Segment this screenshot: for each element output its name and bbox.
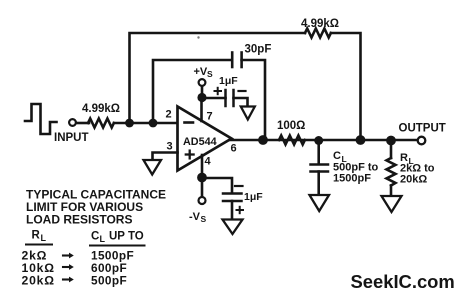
svg-text:-V: -V [189, 211, 201, 223]
node pin6 junction [258, 135, 268, 145]
svg-text:3: 3 [167, 141, 173, 153]
node CL junction [314, 136, 323, 145]
table title line 1 [26, 188, 166, 202]
node +Vs junction dot [197, 93, 206, 102]
op-amp U1 triangle [178, 107, 232, 171]
label 100 ohm [277, 120, 305, 132]
svg-text:100Ω: 100Ω [277, 120, 305, 132]
wire feedback loop (right side down to output rail) [331, 33, 361, 140]
table title line 3 [26, 213, 132, 227]
label 4.99kOhm (feedback) [301, 18, 339, 30]
table row 3 [22, 274, 128, 288]
wire outer feedback loop (left+top) [130, 33, 306, 123]
wire pin3 to ground [153, 153, 178, 161]
table arrow row 2 [63, 264, 74, 270]
svg-text:2: 2 [166, 109, 172, 121]
capacitor C1 30pF plates [232, 53, 241, 68]
svg-text:SeekIC.com: SeekIC.com [351, 271, 455, 292]
op-amp plus sign [186, 151, 194, 159]
svg-text:OUTPUT: OUTPUT [399, 123, 446, 135]
ground (-Vs bypass) [223, 220, 243, 235]
+Vs terminal [199, 79, 206, 86]
C3 plus sign [237, 207, 244, 213]
C2 minus sign [239, 90, 246, 92]
capacitor CL plates [311, 165, 329, 172]
table arrow row 3 [63, 277, 74, 283]
svg-text:UP TO: UP TO [109, 231, 144, 243]
label 1uF (bottom) [244, 191, 263, 203]
ground (RL) [382, 196, 402, 212]
table title line 2 [26, 200, 143, 214]
svg-text:6: 6 [231, 143, 237, 155]
svg-text:AD544: AD544 [183, 136, 217, 148]
resistor R1 4.99k (input) [88, 119, 114, 128]
label 1uF (top) [219, 75, 238, 87]
label 30pF [245, 44, 272, 56]
label +Vs [194, 66, 214, 79]
C3 minus sign [235, 185, 243, 187]
svg-text:+V: +V [194, 66, 208, 78]
label OUTPUT [399, 123, 446, 135]
ground (non-inverting input) [144, 160, 162, 175]
ground (CL) [310, 195, 330, 211]
svg-text:L: L [100, 234, 106, 244]
svg-text:R: R [32, 230, 41, 242]
resistor R2 4.99k (feedback) [305, 29, 331, 38]
table header RL underline [26, 244, 52, 246]
node junction A (feedback tap) [125, 119, 134, 128]
svg-text:4: 4 [205, 156, 212, 168]
wire output rail [230, 139, 418, 142]
label CL value [333, 150, 379, 185]
wire CL to ground [317, 172, 320, 196]
svg-text:500pF: 500pF [91, 274, 127, 288]
svg-text:1500pF: 1500pF [333, 173, 371, 185]
watermark SeekIC.com [351, 271, 455, 292]
svg-text:INPUT: INPUT [54, 132, 89, 144]
pin label 4 [205, 156, 212, 168]
table row 1 [22, 249, 135, 263]
node -Vs junction dot [197, 173, 207, 183]
node feedback junction [356, 135, 366, 145]
table header RL [32, 230, 47, 244]
wire input terminal to R1 [76, 122, 89, 125]
node RL junction [386, 136, 396, 146]
wire RL to ground [390, 186, 393, 197]
resistor RL (vertical) [387, 158, 396, 186]
table arrow row 1 [63, 253, 74, 259]
wire +Vs dot to C2 [202, 97, 226, 100]
label AD544 [183, 136, 217, 148]
svg-text:20kΩ: 20kΩ [22, 274, 55, 288]
svg-text:4.99kΩ: 4.99kΩ [301, 18, 339, 30]
wire RL junction down [390, 140, 393, 158]
label 4.99kOhm (input) [82, 103, 120, 115]
node junction B (30pF tap) [149, 119, 158, 128]
wire pin7 to +Vs node [200, 98, 203, 122]
table row 2 [22, 261, 128, 275]
wire 30pF loop (left+top) [153, 60, 232, 123]
wire -Vs dot to terminal [201, 182, 204, 197]
wire +Vs dot to terminal [201, 86, 204, 94]
ground (top bypass) [241, 107, 255, 120]
scan speck [197, 36, 199, 38]
wire 30pF to output rail [242, 60, 265, 140]
svg-text:C: C [333, 150, 341, 162]
wire -Vs dot to C3 [202, 178, 232, 193]
wire CL junction down [317, 140, 320, 164]
svg-text:S: S [207, 69, 213, 79]
input terminal [69, 119, 76, 126]
svg-text:S: S [201, 214, 207, 224]
-Vs terminal [199, 197, 206, 204]
op-amp minus sign [185, 121, 194, 124]
pin label 3 [167, 141, 173, 153]
svg-text:4.99kΩ: 4.99kΩ [82, 103, 120, 115]
label -Vs [189, 211, 207, 224]
table header CL UP TO [91, 231, 144, 245]
label RL value [400, 152, 435, 186]
table header CL underline [90, 245, 145, 247]
input square-wave symbol [25, 104, 57, 134]
svg-text:20kΩ: 20kΩ [400, 174, 427, 186]
OUTPUT terminal [418, 137, 426, 145]
svg-text:L: L [41, 233, 47, 243]
C2 plus sign [215, 88, 222, 94]
pin label 2 [166, 109, 172, 121]
label INPUT [54, 132, 89, 144]
wire pin4 to -Vs node [201, 155, 204, 178]
svg-text:LOAD RESISTORS: LOAD RESISTORS [26, 213, 132, 227]
pin label 7 [207, 111, 213, 123]
wire C3 to ground [231, 201, 234, 220]
wire R1 to op-amp inverting input [114, 122, 178, 125]
svg-text:1μF: 1μF [219, 75, 238, 87]
svg-text:1μF: 1μF [244, 191, 263, 203]
svg-text:C: C [91, 231, 99, 243]
wire C2 to ground [234, 98, 248, 107]
capacitor C3 1uF plates (-Vs bypass) [223, 194, 242, 202]
resistor R3 100 ohm [279, 136, 305, 145]
svg-text:30pF: 30pF [245, 44, 272, 56]
capacitor C2 1uF plates (+Vs bypass) [226, 90, 234, 106]
pin label 6 [231, 143, 237, 155]
svg-text:7: 7 [207, 111, 213, 123]
